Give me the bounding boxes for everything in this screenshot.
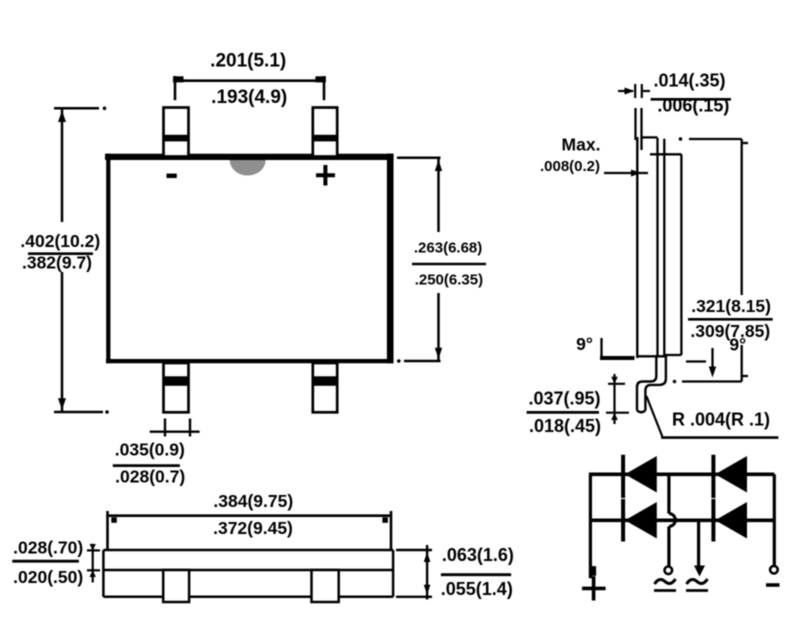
svg-text:.063(1.6): .063(1.6): [442, 545, 514, 565]
dim bracket height (right): [396, 545, 432, 600]
plus label: [316, 165, 335, 186]
pin bottom-left: [164, 363, 189, 412]
arrow to lead face: [604, 172, 648, 174]
diode D1: [623, 455, 657, 498]
AC1 wire with hop: [667, 474, 670, 513]
body outline: [103, 550, 393, 597]
fraction bar: [688, 318, 773, 321]
svg-text:Max.: Max.: [562, 135, 601, 155]
svg-text:.250(6.35): .250(6.35): [415, 272, 483, 289]
AC2 terminal: [694, 566, 705, 577]
svg-text:.018(.45): .018(.45): [529, 416, 601, 436]
svg-text:.020(.50): .020(.50): [13, 567, 83, 587]
bottom rail: [589, 518, 774, 522]
dim pin width ticks: [150, 419, 200, 437]
svg-text:.193(4.9): .193(4.9): [211, 87, 287, 108]
body top edge: [105, 154, 394, 160]
fraction bar: [412, 263, 486, 266]
seating plane dash-dot: [673, 380, 677, 384]
AC1 terminal circle: [665, 567, 673, 575]
svg-text:.006(.15): .006(.15): [657, 96, 729, 116]
svg-text:.402(10.2): .402(10.2): [20, 231, 100, 251]
lead tab left: [163, 570, 189, 602]
AC2 wire: [697, 520, 700, 566]
right wire to -: [773, 474, 776, 566]
svg-text:.035(0.9): .035(0.9): [115, 440, 185, 460]
minus terminal: [766, 583, 780, 587]
svg-text:R .004(R .1): R .004(R .1): [672, 410, 770, 430]
center line top (dash-dot): [679, 137, 683, 141]
body right edge: [387, 154, 394, 364]
dim bracket width: [108, 511, 392, 551]
fraction bar: [441, 573, 511, 576]
arrowheads right dim: [435, 160, 442, 171]
body front lines: [658, 138, 682, 356]
svg-text:9°: 9°: [729, 335, 746, 355]
svg-text:.372(9.45): .372(9.45): [213, 518, 293, 538]
svg-text:.321(8.15): .321(8.15): [691, 296, 771, 316]
arrowheads left dim: [58, 111, 66, 123]
svg-text:.263(6.68): .263(6.68): [414, 240, 482, 257]
svg-text:9°: 9°: [576, 334, 593, 354]
lead top tip: [636, 108, 642, 150]
minus label: [167, 174, 177, 179]
svg-text:.055(1.4): .055(1.4): [441, 579, 513, 599]
lead left face: [636, 137, 638, 358]
pin bottom-right: [313, 363, 337, 412]
dash dots: [103, 107, 107, 111]
diode D4: [713, 499, 747, 542]
svg-text:.384(9.75): .384(9.75): [213, 491, 293, 511]
svg-text:.028(0.7): .028(0.7): [115, 467, 185, 487]
foot height dim: [606, 374, 629, 424]
pin top-right: [313, 108, 337, 157]
plus terminal: [582, 576, 606, 600]
fraction bar: [12, 560, 79, 563]
svg-text:.037(.95): .037(.95): [528, 389, 600, 409]
body bottom edge: [637, 355, 666, 357]
pin top-left: [164, 108, 189, 157]
R .004 leader: [646, 396, 662, 437]
body left edge: [106, 154, 110, 364]
fraction bar: [113, 464, 180, 467]
svg-text:.014(.35): .014(.35): [653, 71, 725, 91]
height bracket right: [742, 139, 748, 382]
AC2 tilde: [687, 579, 708, 584]
lower lead bend: [637, 355, 656, 411]
diode D3: [623, 499, 657, 542]
body top cap: [642, 136, 658, 138]
AC1 tilde: [655, 579, 676, 584]
arrows slab thickness: [87, 544, 100, 583]
fraction bar: [28, 252, 93, 255]
dim body width bracket (right of top view): [397, 158, 441, 361]
fraction bar: [651, 98, 731, 101]
lead tab right: [312, 570, 339, 602]
svg-text:.201(5.1): .201(5.1): [210, 51, 286, 72]
index notch (gray): [230, 160, 266, 176]
left wire to +: [589, 474, 592, 578]
fraction bar: [527, 411, 599, 414]
dim lead thickness arrow: [618, 84, 650, 98]
dim overall height line (left): [54, 108, 103, 412]
dim lead spacing bracket: [175, 76, 324, 100]
top rail: [589, 472, 774, 476]
svg-text:.008(0.2): .008(0.2): [540, 158, 600, 175]
svg-text:.028(.70): .028(.70): [13, 538, 83, 558]
minus terminal circle: [770, 566, 778, 574]
body bottom edge: [106, 359, 394, 363]
svg-text:.382(9.7): .382(9.7): [22, 253, 92, 273]
diode D2: [713, 455, 747, 498]
